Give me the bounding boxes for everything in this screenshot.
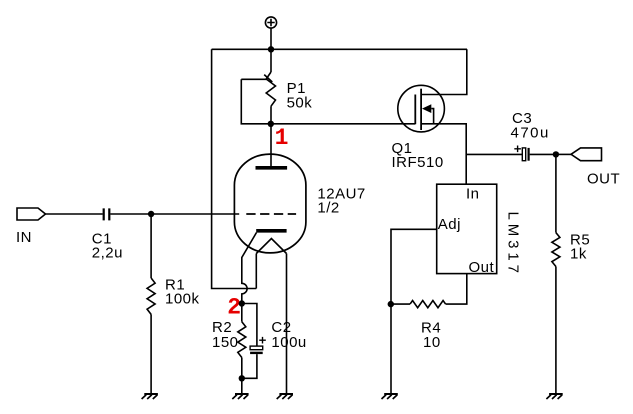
tube U1 12AU7 envelope — [234, 154, 306, 253]
svg-text:Out: Out — [469, 259, 495, 276]
label R2 150 — [212, 319, 239, 351]
connector OUT tag — [571, 148, 602, 161]
node R2/C2 bottom junction — [239, 375, 245, 381]
wire heater left pin — [255, 254, 257, 289]
resistor R4 — [391, 301, 446, 308]
resistor R2 — [238, 304, 246, 379]
svg-text:1k: 1k — [570, 246, 587, 263]
svg-text:2,2u: 2,2u — [92, 245, 123, 262]
svg-text:In: In — [466, 186, 480, 203]
wire gate rail to Q1 — [271, 123, 416, 125]
power supply V+ symbol — [265, 17, 276, 49]
svg-text:IN: IN — [16, 229, 32, 246]
pin In label — [438, 186, 495, 277]
node Adj/R4 junction — [388, 301, 394, 307]
ground (heater) — [277, 394, 293, 399]
label R4 10 — [421, 319, 441, 351]
label 12AU7 1/2 — [317, 185, 365, 216]
svg-text:470u: 470u — [511, 125, 550, 142]
wire heater right pin to ground — [286, 254, 288, 395]
capacitor C3 — [514, 146, 556, 161]
wire Out pin — [446, 274, 467, 305]
svg-text:2: 2 — [227, 295, 241, 321]
wire Adj pin — [391, 229, 437, 304]
label C1 2,2u — [92, 231, 123, 262]
node B+ rail junction — [268, 46, 274, 52]
potentiometer P1 — [241, 49, 275, 124]
node cathode junction — [239, 300, 245, 306]
ground (R1) — [142, 394, 158, 399]
wire C1 to grid — [110, 213, 239, 215]
transistor Q1 IRF510 — [398, 49, 467, 184]
svg-text:Adj: Adj — [438, 216, 461, 233]
ground (R5) — [546, 394, 562, 399]
svg-text:LM317: LM317 — [505, 212, 522, 277]
wire to OUT tag — [556, 153, 571, 155]
connector IN tag — [17, 208, 46, 220]
tube cathode bar — [256, 229, 286, 233]
tube grid (dashed) — [246, 213, 296, 215]
tube anode wire — [270, 124, 272, 166]
wire IN to C1 — [46, 213, 103, 215]
ground (R2/C2) — [232, 394, 248, 399]
svg-text:IRF510: IRF510 — [392, 154, 444, 171]
label P1 50k — [287, 80, 313, 112]
wire source node to C3 — [466, 153, 522, 155]
wire to ground — [241, 378, 243, 394]
capacitor C1 — [104, 208, 110, 220]
svg-text:100k: 100k — [165, 291, 200, 308]
svg-text:1: 1 — [275, 125, 289, 151]
node input junction — [148, 211, 154, 217]
resistor R1 — [147, 214, 155, 394]
tube anode plate bar — [256, 166, 288, 170]
wire top supply rail — [212, 48, 467, 50]
tube heater filament — [256, 239, 286, 254]
capacitor C2 — [242, 304, 266, 379]
svg-text:100u: 100u — [271, 334, 306, 351]
node 1 junction (plate/gate) — [268, 121, 274, 127]
label R1 100k — [165, 277, 200, 308]
svg-text:50k: 50k — [287, 95, 313, 112]
node output junction — [553, 151, 559, 157]
svg-text:10: 10 — [423, 334, 441, 351]
resistor R5 — [552, 154, 560, 394]
regulator U2 LM317 box — [437, 184, 497, 273]
wire heater supply left drop — [212, 49, 257, 288]
tube cathode lead with hop — [242, 233, 257, 304]
label C3 470u — [511, 110, 550, 141]
wire to ground — [390, 304, 392, 394]
label R5 1k — [570, 231, 590, 262]
label Q1 IRF510 — [392, 140, 444, 171]
svg-text:OUT: OUT — [587, 170, 620, 187]
svg-text:1/2: 1/2 — [317, 200, 339, 217]
label C2 100u — [271, 319, 306, 351]
svg-text:150: 150 — [212, 334, 239, 351]
ground (R4) — [382, 394, 398, 399]
